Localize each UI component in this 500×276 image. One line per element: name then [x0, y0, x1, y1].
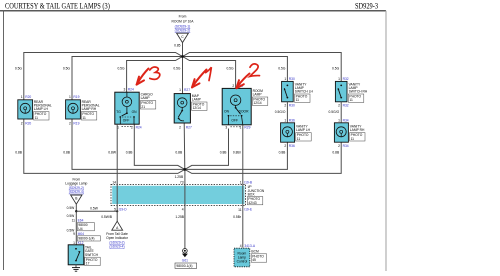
- right page border: [385, 11, 387, 271]
- off-page triangle B luggage: [71, 195, 82, 204]
- feed wire down to junction: [182, 43, 184, 57]
- svg-text:SD929-3: SD929-3: [355, 2, 378, 11]
- svg-text:3413-A: 3413-A: [244, 244, 255, 248]
- red digit 2: [250, 64, 260, 77]
- svg-text:LAMP: LAMP: [253, 93, 263, 97]
- junction dot luggage: [75, 210, 77, 212]
- svg-text:0.5G: 0.5G: [117, 67, 125, 71]
- ground G61 symbol: [183, 249, 188, 254]
- svg-text:Control: Control: [237, 260, 248, 264]
- red arrow 2: [238, 74, 250, 87]
- svg-text:0.85: 0.85: [174, 44, 181, 48]
- red arrow 1: [193, 70, 206, 86]
- svg-text:0.5G/O: 0.5G/O: [329, 110, 340, 114]
- ground tail gate switch: [75, 265, 77, 268]
- svg-text:11: 11: [296, 98, 300, 102]
- mechanical link dashes room: [230, 126, 240, 128]
- svg-text:I19-E: I19-E: [244, 207, 253, 211]
- BCM room lamp control box: [234, 248, 250, 267]
- svg-text:SWITCH LH: SWITCH LH: [295, 90, 314, 94]
- svg-text:0.5G: 0.5G: [332, 67, 340, 71]
- red digit 3: [150, 67, 160, 79]
- svg-text:1: 1: [338, 77, 340, 81]
- tail gate switch box: [68, 245, 84, 265]
- left page border: [3, 11, 5, 270]
- svg-text:LAMP: LAMP: [192, 98, 202, 102]
- svg-text:2: 2: [69, 121, 71, 125]
- cargo lamp box: [115, 92, 139, 124]
- lamp REAR PERSONAL LAMP LH: [18, 100, 33, 119]
- svg-text:R19: R19: [73, 95, 79, 99]
- svg-text:R19: R19: [73, 121, 79, 125]
- map switch arm: [178, 111, 182, 118]
- svg-text:1: 1: [284, 77, 286, 81]
- svg-text:(SD929-4): (SD929-4): [69, 190, 84, 194]
- room lamp box: [222, 88, 251, 124]
- svg-text:2: 2: [179, 125, 181, 129]
- svg-text:17: 17: [86, 261, 90, 265]
- svg-text:0.5W: 0.5W: [67, 206, 76, 210]
- svg-text:0.8B: 0.8B: [175, 151, 183, 155]
- svg-text:(SD929-2): (SD929-2): [175, 28, 191, 32]
- svg-text:0.5G/O: 0.5G/O: [275, 110, 286, 114]
- svg-text:I19-B: I19-B: [244, 180, 253, 184]
- svg-text:R32: R32: [343, 104, 349, 108]
- svg-text:R36: R36: [289, 144, 295, 148]
- svg-text:R27: R27: [186, 125, 192, 129]
- svg-text:R29: R29: [244, 126, 250, 130]
- svg-text:11: 11: [297, 137, 301, 141]
- svg-text:1.25B: 1.25B: [175, 215, 184, 219]
- svg-text:DOOR: DOOR: [239, 110, 250, 114]
- svg-text:(SD929-4): (SD929-4): [109, 244, 124, 248]
- junction dot top: [181, 55, 184, 58]
- svg-text:21: 21: [141, 105, 145, 109]
- svg-text:SWITCH: SWITCH: [85, 253, 99, 257]
- svg-text:2: 2: [338, 104, 340, 108]
- svg-text:11: 11: [351, 137, 355, 141]
- svg-text:R32: R32: [343, 77, 349, 81]
- wire inner top bus: [127, 57, 236, 93]
- svg-text:1: 1: [179, 88, 181, 92]
- svg-text:0.5G: 0.5G: [226, 67, 234, 71]
- svg-text:0.5G: 0.5G: [63, 67, 71, 71]
- svg-text:I19-D: I19-D: [119, 207, 128, 211]
- svg-text:11: 11: [349, 98, 353, 102]
- svg-text:BOX: BOX: [248, 192, 256, 196]
- svg-text:0.5Br: 0.5Br: [233, 215, 242, 219]
- svg-text:0.8Br: 0.8Br: [233, 151, 242, 155]
- svg-text:4: 4: [240, 244, 242, 248]
- svg-text:3: 3: [124, 88, 126, 92]
- svg-text:2: 2: [338, 144, 340, 148]
- svg-text:4: 4: [182, 207, 184, 211]
- svg-text:R20: R20: [25, 121, 31, 125]
- connector part box 98000: [77, 223, 94, 231]
- svg-text:0.5G: 0.5G: [15, 67, 23, 71]
- svg-text:R34: R34: [343, 144, 349, 148]
- svg-text:Luggage Lamp: Luggage Lamp: [65, 181, 87, 185]
- svg-text:OFF: OFF: [123, 119, 130, 123]
- wire vanity RH mid: [340, 102, 342, 123]
- svg-text:1: 1: [338, 118, 340, 122]
- svg-text:11: 11: [72, 219, 76, 223]
- svg-text:R20: R20: [25, 95, 31, 99]
- svg-text:0.8B: 0.8B: [279, 151, 287, 155]
- svg-text:0.5G: 0.5G: [278, 67, 286, 71]
- wire main ground drop: [184, 169, 186, 248]
- svg-text:ON: ON: [132, 110, 138, 114]
- svg-text:11: 11: [35, 116, 39, 120]
- svg-text:R36: R36: [289, 118, 295, 122]
- I/P junction box module: [112, 186, 244, 204]
- wire luggage down: [75, 204, 77, 244]
- svg-text:1: 1: [69, 95, 71, 99]
- vanity lamp switch RH box: [335, 81, 347, 101]
- svg-text:2: 2: [284, 104, 286, 108]
- svg-text:U4: U4: [78, 227, 82, 231]
- svg-text:M04: M04: [78, 232, 85, 236]
- cargo switch arm: [122, 113, 127, 116]
- svg-text:0.5W/B: 0.5W/B: [101, 215, 113, 219]
- svg-text:R30: R30: [289, 77, 295, 81]
- off-page triangle C: [177, 33, 189, 42]
- wire module pin5 down: [116, 205, 118, 221]
- wire map lamp feed: [182, 57, 184, 94]
- header rule: [0, 10, 386, 12]
- ground part box: [175, 263, 197, 268]
- svg-text:0.8B: 0.8B: [126, 151, 134, 155]
- svg-text:0.5W: 0.5W: [67, 214, 76, 218]
- svg-text:Open Indicator: Open Indicator: [106, 236, 129, 240]
- room switch arm: [236, 108, 241, 114]
- svg-text:1: 1: [240, 180, 242, 184]
- svg-text:TG: TG: [116, 110, 121, 114]
- svg-text:12/14: 12/14: [193, 106, 201, 110]
- svg-text:12/14: 12/14: [253, 101, 261, 105]
- wire middle bottom bus: [72, 119, 287, 169]
- svg-text:1: 1: [284, 118, 286, 122]
- svg-text:0.8B: 0.8B: [15, 151, 23, 155]
- map lamp box: [174, 94, 190, 123]
- svg-text:73: 73: [180, 180, 184, 184]
- svg-text:1: 1: [240, 126, 242, 130]
- svg-text:LAMP: LAMP: [141, 96, 151, 100]
- svg-text:R24: R24: [128, 88, 134, 92]
- mechanical link dashes: [122, 126, 133, 128]
- svg-text:42/43: 42/43: [248, 201, 256, 205]
- vanity lamp RH box: [334, 123, 348, 142]
- svg-text:98000-1(4): 98000-1(4): [78, 237, 94, 241]
- svg-text:2: 2: [232, 84, 234, 88]
- svg-text:9: 9: [73, 232, 75, 236]
- svg-text:0.8B: 0.8B: [63, 151, 71, 155]
- svg-text:3: 3: [225, 126, 227, 130]
- wire outer top bus: [24, 53, 341, 101]
- wire luggage to module pin5: [76, 210, 117, 212]
- svg-text:COURTESY & TAIL GATE LAMPS (3): COURTESY & TAIL GATE LAMPS (3): [5, 2, 110, 11]
- wire outer bottom bus: [24, 119, 341, 173]
- svg-text:BCM: BCM: [251, 249, 259, 253]
- svg-text:0.5W: 0.5W: [90, 206, 99, 210]
- off-page triangle A tailgate indicator: [112, 221, 123, 230]
- svg-text:2: 2: [21, 121, 23, 125]
- svg-text:1: 1: [21, 95, 23, 99]
- svg-text:LAMP RH: LAMP RH: [350, 128, 365, 132]
- svg-text:R34: R34: [343, 118, 349, 122]
- svg-text:ON: ON: [224, 110, 230, 114]
- junction dot at module pin5 wire: [116, 210, 118, 212]
- svg-text:45: 45: [252, 258, 256, 262]
- svg-text:0.8W: 0.8W: [108, 151, 117, 155]
- svg-text:LAMP LH: LAMP LH: [34, 107, 49, 111]
- connector part box 98000-1(4): [77, 236, 100, 241]
- wire module pin11 to BCM: [242, 205, 244, 247]
- room pin1 wire to module: [242, 125, 244, 185]
- cargo pin1 wire to module: [116, 124, 118, 184]
- svg-text:11: 11: [82, 116, 86, 120]
- svg-text:R30: R30: [289, 104, 295, 108]
- svg-text:From: From: [179, 15, 187, 19]
- lamp REAR PERSONAL LAMP RH: [66, 100, 81, 119]
- svg-text:R27: R27: [184, 88, 190, 92]
- svg-text:SWITCH RH: SWITCH RH: [349, 90, 368, 94]
- svg-text:G61: G61: [182, 259, 188, 263]
- svg-text:R24: R24: [136, 125, 142, 129]
- svg-text:14: 14: [112, 180, 116, 184]
- red digit 1: [206, 67, 212, 80]
- svg-text:11: 11: [238, 208, 242, 212]
- svg-text:0.8B: 0.8B: [220, 151, 228, 155]
- wire inner bottom bus: [134, 124, 228, 169]
- wire map lamp ground: [183, 123, 186, 169]
- svg-text:1.25B: 1.25B: [175, 175, 184, 179]
- svg-text:LAMP LH: LAMP LH: [296, 128, 311, 132]
- vanity lamp switch LH box: [282, 81, 294, 101]
- svg-text:LAMP RH: LAMP RH: [82, 107, 97, 111]
- svg-text:0.5G: 0.5G: [173, 67, 181, 71]
- svg-text:98000-1(4): 98000-1(4): [176, 264, 192, 268]
- svg-text:2: 2: [131, 125, 133, 129]
- svg-text:ROOM LP 10A: ROOM LP 10A: [172, 20, 195, 24]
- red arrow 3: [138, 69, 149, 83]
- wire middle top bus: [72, 57, 287, 101]
- svg-text:2: 2: [284, 144, 286, 148]
- svg-text:E64: E64: [78, 219, 84, 223]
- wire ground through module: [184, 184, 186, 205]
- vanity lamp LH box: [281, 123, 295, 142]
- svg-text:OFF: OFF: [231, 118, 238, 122]
- wire vanity LH mid: [286, 102, 288, 123]
- svg-text:0.8B: 0.8B: [332, 151, 340, 155]
- junction dot bottom: [183, 168, 186, 171]
